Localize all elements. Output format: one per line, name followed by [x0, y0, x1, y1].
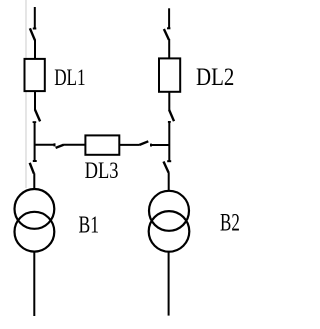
circuit breaker DL2 — [159, 58, 180, 91]
wire: QS3 to transformer B1 — [33, 173, 35, 189]
disconnect switch QS2 blade — [35, 110, 40, 122]
disconnect switch QS6 blade — [164, 162, 169, 173]
disconnect switch QS1 (left top): fixed contact tick — [33, 28, 37, 30]
disconnect switch QS4 blade — [164, 29, 169, 40]
disconnect switch QS8 blade — [140, 141, 149, 145]
wire: QS8 to right bus — [152, 144, 170, 146]
disconnect switch QS7 fixed contact tick — [54, 143, 56, 146]
disconnect switch QS3 blade — [30, 163, 34, 174]
wire: tie branch from left bus — [35, 144, 55, 146]
disconnect switch QS5 fixed contact tick — [168, 121, 171, 123]
svg-text:DL2: DL2 — [196, 63, 234, 91]
disconnect switch QS8 fixed contact tick — [150, 144, 152, 147]
wire: right bus segment with tie branch node — [168, 122, 170, 161]
circuit breaker DL1 — [25, 59, 45, 91]
transformer B1 primary winding — [15, 189, 55, 229]
transformer B1 secondary winding — [15, 212, 55, 252]
wire: DL2 to QS5 — [168, 92, 170, 110]
wire: DL3 to QS8 — [120, 144, 140, 146]
wire: DL1 to QS2 — [34, 92, 36, 111]
wire: QS1 to DL1 — [34, 40, 36, 59]
svg-text:DL1: DL1 — [54, 65, 85, 90]
svg-text:B2: B2 — [220, 208, 240, 237]
faint grid guide line — [25, 0, 27, 188]
wire: below transformer B2 — [168, 252, 170, 316]
disconnect switch QS6 fixed contact tick — [167, 160, 171, 162]
disconnect switch QS3 fixed contact tick — [33, 160, 37, 162]
wire: left bus segment with tie branch node — [34, 123, 36, 161]
wire: QS4 to DL2 — [168, 39, 170, 59]
wire: right incoming feeder top — [168, 8, 170, 28]
transformer B2 secondary winding — [149, 211, 190, 252]
wire: below transformer B1 — [33, 252, 35, 316]
wire: left incoming feeder top — [34, 7, 36, 28]
tie circuit breaker DL3 — [85, 135, 119, 154]
wire: QS6 to transformer B2 — [168, 172, 170, 191]
disconnect switch QS1 blade — [30, 28, 35, 40]
disconnect switch QS4 fixed contact tick — [167, 27, 170, 29]
wire: QS7 to DL3 — [63, 144, 85, 146]
svg-text:B1: B1 — [79, 213, 100, 239]
transformer B2 primary winding — [149, 191, 189, 231]
svg-text:DL3: DL3 — [85, 158, 119, 183]
disconnect switch QS7 blade — [56, 145, 64, 148]
disconnect switch QS2 fixed contact tick — [33, 121, 37, 123]
disconnect switch QS5 blade — [169, 110, 174, 121]
